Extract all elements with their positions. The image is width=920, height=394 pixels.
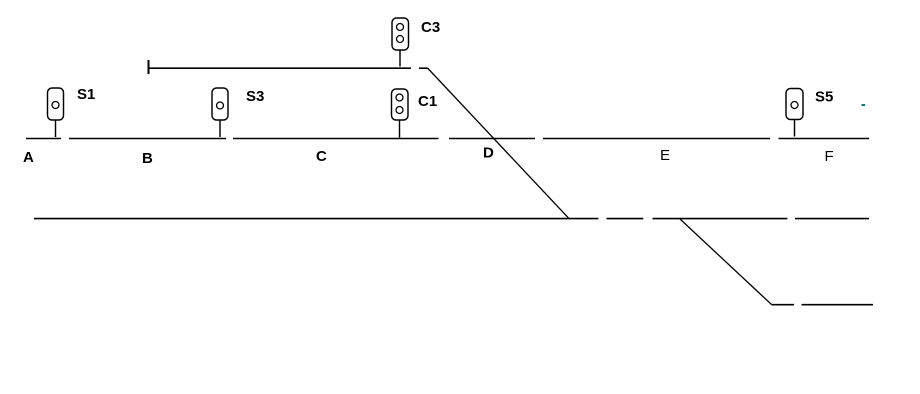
track 2 segment 3 bbox=[653, 218, 788, 220]
track segment B bbox=[69, 138, 226, 140]
track segment A bbox=[26, 138, 61, 140]
signal C3 bbox=[392, 18, 409, 67]
buffer stop bbox=[148, 60, 150, 74]
svg-text:E: E bbox=[660, 147, 670, 164]
svg-text:S1: S1 bbox=[77, 86, 95, 103]
track segment D bbox=[449, 138, 535, 140]
track 2 segment 2 bbox=[607, 218, 644, 220]
svg-text:C1: C1 bbox=[418, 93, 437, 110]
track segment C bbox=[233, 138, 439, 140]
svg-text:F: F bbox=[825, 148, 834, 165]
svg-text:C3: C3 bbox=[421, 19, 440, 36]
svg-text:A: A bbox=[23, 149, 34, 166]
svg-text:D: D bbox=[483, 145, 494, 162]
diagonal crossover wire (siding to track 2) bbox=[428, 68, 570, 219]
signal S5 bbox=[786, 89, 803, 137]
svg-text:S5: S5 bbox=[815, 89, 833, 106]
signal C1 bbox=[392, 89, 409, 138]
siding stub wire bbox=[419, 67, 428, 69]
svg-text:B: B bbox=[142, 150, 153, 167]
siding track wire bbox=[148, 67, 411, 69]
svg-text:C: C bbox=[316, 148, 327, 165]
track segment E bbox=[543, 138, 770, 140]
track 2 segment 4 bbox=[795, 218, 869, 220]
track 3 segment 2 bbox=[802, 304, 874, 306]
signal S3 bbox=[212, 88, 228, 137]
svg-text:S3: S3 bbox=[246, 88, 264, 105]
track 2 segment 1 bbox=[34, 218, 598, 220]
track segment F bbox=[779, 138, 870, 140]
teal artifact mark bbox=[862, 104, 866, 106]
track 3 segment 1 bbox=[772, 304, 795, 306]
signal S1 bbox=[48, 88, 64, 137]
diagonal crossover wire (track 2 to track 3) bbox=[680, 219, 772, 305]
